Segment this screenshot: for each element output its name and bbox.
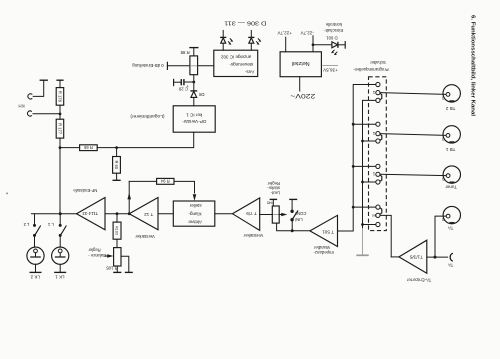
stray mark a bbox=[6, 193, 8, 195]
DIN socket TB1 bbox=[443, 126, 460, 143]
wire KH ring to node bbox=[33, 113, 60, 115]
node T12 output bbox=[128, 212, 131, 215]
wire bbox=[60, 147, 80, 149]
capacitor C29 bbox=[184, 81, 194, 83]
T-bar R88 top bbox=[189, 47, 198, 49]
feedback riser with arrow bbox=[128, 181, 130, 213]
svg-text:0 dB-Einstellung: 0 dB-Einstellung bbox=[132, 63, 164, 68]
LED D601 Einschaltkontrolle bbox=[313, 44, 332, 46]
svg-text:T114-33: T114-33 bbox=[82, 211, 98, 216]
resistor R65 bbox=[80, 145, 98, 151]
DIN socket Tuner bbox=[443, 166, 460, 183]
svg-text:TB 1: TB 1 bbox=[445, 147, 455, 152]
svg-text:LIN/: LIN/ bbox=[294, 217, 303, 222]
svg-text:T1/3/5: T1/3/5 bbox=[409, 255, 422, 260]
wire 0dB adjust bbox=[167, 65, 190, 67]
svg-text:L 1: L 1 bbox=[47, 222, 53, 227]
svg-text:KH: KH bbox=[18, 103, 24, 108]
svg-text:R 88: R 88 bbox=[180, 50, 190, 55]
amplifier T12 bbox=[129, 198, 158, 230]
IC302 level indicator box bbox=[214, 50, 258, 76]
wire bbox=[59, 114, 61, 119]
svg-text:T 7/9: T 7/9 bbox=[246, 211, 257, 216]
switch LIN/CONT bbox=[291, 221, 293, 231]
node balance tap bbox=[116, 212, 119, 215]
connector TA jack bbox=[450, 253, 453, 261]
svg-text:ker IC 1: ker IC 1 bbox=[186, 113, 203, 118]
diode D8 bbox=[191, 91, 197, 97]
label +36,5V bbox=[322, 65, 338, 67]
svg-text:OP-Verstär-: OP-Verstär- bbox=[182, 119, 207, 124]
wire T7/9 base to pot bbox=[260, 214, 273, 216]
wire bbox=[116, 148, 118, 157]
switch L1 bbox=[59, 212, 62, 215]
svg-text:R 105: R 105 bbox=[106, 266, 118, 271]
switch section TA bbox=[376, 205, 380, 209]
speaker output bus bbox=[32, 213, 77, 215]
balance chain: resistor R102 bbox=[116, 214, 118, 222]
wire bbox=[193, 82, 195, 91]
svg-text:Wandler: Wandler bbox=[313, 245, 329, 250]
svg-text:Tuner: Tuner bbox=[445, 185, 457, 190]
svg-text:LK 1: LK 1 bbox=[55, 275, 65, 280]
wire TA contact to equalizer bbox=[380, 215, 391, 257]
switch section TB2 bbox=[376, 82, 380, 86]
speaker LK1 bbox=[52, 247, 69, 264]
ground R60 bbox=[113, 179, 121, 181]
node TB1 tap bbox=[352, 123, 355, 126]
svg-text:R45: R45 bbox=[267, 201, 274, 205]
LED D306 bbox=[222, 30, 224, 37]
node TA bbox=[434, 256, 437, 259]
svg-text:kontrolle: kontrolle bbox=[325, 22, 342, 27]
resistor R178 bbox=[56, 88, 64, 106]
Netzteil box bbox=[280, 52, 321, 77]
wire T12 base to tone box bbox=[158, 213, 173, 215]
node Tuner tap bbox=[352, 165, 355, 168]
svg-text:CONT: CONT bbox=[294, 211, 306, 216]
node KH/R177/R178 bbox=[59, 113, 62, 116]
wire NF base to T12 apex bbox=[105, 213, 129, 215]
svg-text:anzeige IC 302: anzeige IC 302 bbox=[220, 54, 251, 59]
wire +22,7V bbox=[285, 37, 287, 52]
node LIN/CONT bbox=[291, 229, 294, 232]
node C29/D8/R88 bbox=[192, 81, 195, 84]
potentiometer R105 Balance bbox=[114, 248, 121, 266]
wire bbox=[116, 173, 118, 180]
wire R88 bottom to node bbox=[193, 75, 195, 82]
wire bbox=[59, 138, 61, 148]
impedance converter T501 bbox=[310, 215, 338, 246]
svg-text:steller: steller bbox=[189, 203, 202, 208]
wire KH tip to T-bar bbox=[33, 80, 44, 96]
svg-text:R 177: R 177 bbox=[57, 123, 62, 135]
svg-text:R102: R102 bbox=[114, 226, 118, 235]
svg-text:D 601: D 601 bbox=[326, 35, 338, 40]
svg-text:TB 2: TB 2 bbox=[445, 106, 455, 111]
wire Tuner top bbox=[353, 165, 376, 167]
wire bbox=[59, 105, 61, 114]
wire tone box to T7/9 bbox=[215, 213, 233, 215]
svg-text:Verstärker: Verstärker bbox=[243, 233, 263, 238]
svg-text:L 2: L 2 bbox=[23, 222, 29, 227]
LED D311 bbox=[250, 30, 252, 37]
switch section Tuner bbox=[376, 164, 380, 168]
wire pot bottom bbox=[277, 223, 310, 231]
svg-text:TA: TA bbox=[448, 226, 453, 231]
headphone jack KH bbox=[28, 94, 32, 99]
DIN socket TA bbox=[443, 206, 460, 223]
wire to IC1 bbox=[117, 132, 194, 147]
svg-text:220V~: 220V~ bbox=[290, 92, 316, 99]
wire TB1 top bbox=[353, 123, 376, 125]
svg-text:Regler: Regler bbox=[267, 181, 280, 186]
svg-text:LK 2: LK 2 bbox=[30, 275, 40, 280]
svg-text:(Logarithmierer): (Logarithmierer) bbox=[130, 113, 165, 119]
active tone control box Aktiver Klangsteller bbox=[173, 201, 215, 226]
svg-text:Aktiver: Aktiver bbox=[188, 220, 202, 225]
svg-text:T 501: T 501 bbox=[322, 230, 334, 235]
DIN socket TB2 bbox=[443, 85, 460, 102]
svg-text:R 65: R 65 bbox=[83, 145, 92, 150]
wire equalizer base to TA jack bbox=[427, 256, 448, 258]
wire bbox=[59, 80, 61, 87]
svg-text:Regler: Regler bbox=[88, 248, 101, 253]
svg-text:R 94: R 94 bbox=[160, 179, 169, 184]
svg-text:+36,5V: +36,5V bbox=[322, 67, 338, 72]
svg-text:R 60: R 60 bbox=[114, 160, 119, 169]
svg-text:H: H bbox=[372, 213, 375, 218]
wire TB2 contact to socket bbox=[380, 93, 446, 95]
svg-text:6. Funktionsschaltbild, linker: 6. Funktionsschaltbild, linker Kanal bbox=[470, 15, 476, 117]
svg-text:+22,7V: +22,7V bbox=[278, 31, 292, 36]
svg-text:Impedanz-: Impedanz- bbox=[313, 250, 334, 255]
wire bbox=[97, 147, 116, 149]
resistor R60 bbox=[113, 157, 121, 174]
ground line selector bbox=[363, 100, 376, 228]
wire R94 to tone box with arrow bbox=[174, 181, 195, 193]
node R65/R60/IC1 bbox=[115, 146, 118, 149]
svg-text:Netzteil: Netzteil bbox=[292, 60, 310, 66]
svg-text:D8: D8 bbox=[198, 92, 204, 97]
wire IC1 top to D8 bbox=[193, 97, 195, 105]
program selector dashed box bbox=[369, 77, 387, 231]
resistor R94 bbox=[157, 178, 174, 184]
svg-text:T 12: T 12 bbox=[144, 212, 154, 217]
svg-text:Schalter: Schalter bbox=[370, 60, 386, 65]
potentiometer R45 volume bbox=[272, 206, 279, 223]
svg-text:TA: TA bbox=[448, 262, 453, 267]
selector bus to T501 base bbox=[338, 85, 376, 232]
op-amp IC1 box (Logarithmierer) bbox=[173, 106, 215, 132]
wire TA top bbox=[353, 206, 376, 208]
svg-text:NF-Endstufe: NF-Endstufe bbox=[73, 188, 98, 193]
switch L2 bbox=[34, 214, 36, 225]
node D601 tap bbox=[312, 43, 315, 46]
T-bar R45 top bbox=[270, 198, 278, 200]
wire 220V bbox=[299, 77, 301, 91]
wire TA socket to equalizer node bbox=[435, 216, 446, 257]
TA equalizer T1/3/5 bbox=[399, 240, 427, 273]
wire equalizer apex bbox=[391, 256, 399, 258]
resistor R177 bbox=[56, 119, 64, 138]
svg-text:TA-Entzerrer: TA-Entzerrer bbox=[406, 278, 431, 283]
wiper arrow R45 bbox=[279, 214, 281, 216]
svg-text:Laut-: Laut- bbox=[270, 191, 280, 196]
potentiometer R88 (0dB) bbox=[190, 56, 198, 75]
svg-text:stärke-: stärke- bbox=[267, 186, 280, 191]
power amp NF-Endstufe T114-33 bbox=[77, 198, 106, 230]
svg-text:Aus-: Aus- bbox=[244, 70, 254, 75]
svg-text:Balance -: Balance - bbox=[88, 253, 106, 258]
svg-text:Verstärker: Verstärker bbox=[135, 234, 155, 239]
T-bar R178 top bbox=[56, 79, 63, 81]
T-bar KH bbox=[40, 79, 48, 81]
wire Tuner contact to socket bbox=[380, 174, 446, 175]
svg-text:steuerungs-: steuerungs- bbox=[229, 62, 253, 67]
svg-text:Programmquellen-: Programmquellen- bbox=[353, 67, 389, 72]
svg-text:-22,7V: -22,7V bbox=[301, 30, 314, 35]
amplifier T7/9 bbox=[232, 198, 259, 231]
svg-text:Einschalt-: Einschalt- bbox=[324, 28, 343, 33]
svg-text:R 178: R 178 bbox=[57, 91, 62, 103]
node TA tap bbox=[352, 206, 355, 209]
svg-text:C 29: C 29 bbox=[178, 86, 188, 91]
svg-text:Klang-: Klang- bbox=[188, 212, 202, 217]
wire -22,7V bbox=[312, 36, 314, 52]
node R177/R65/riser bbox=[59, 146, 62, 149]
speaker LK2 bbox=[27, 247, 44, 264]
wire TB1 contact to socket bbox=[380, 134, 446, 136]
switch section TB1 bbox=[376, 122, 380, 126]
svg-text:D 306 — 311: D 306 — 311 bbox=[224, 19, 266, 25]
wire riser to output bus bbox=[59, 148, 61, 214]
